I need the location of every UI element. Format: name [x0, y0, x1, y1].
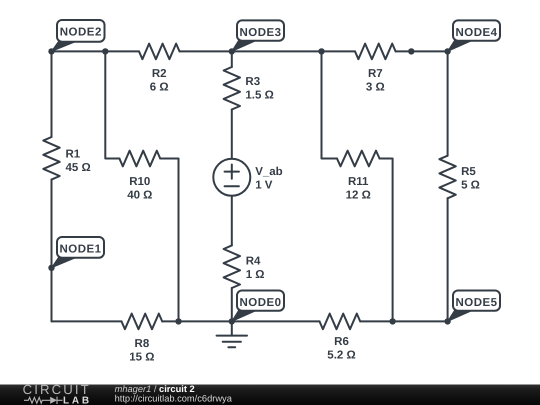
svg-text:R2: R2: [152, 68, 167, 80]
label R5 value 5 Ω: [461, 166, 480, 192]
wire from R10 right lead down to bottom bus: [160, 159, 178, 322]
wire: R4 down to NODE0 on bottom bus: [231, 288, 233, 321]
wire from R11 right lead down to bottom bus: [380, 159, 393, 322]
svg-text:3 Ω: 3 Ω: [366, 82, 385, 94]
resistor R8: [122, 314, 163, 330]
wire middle column: NODE3 down to R3: [231, 51, 233, 67]
svg-text:R5: R5: [461, 166, 476, 178]
svg-text:6 Ω: 6 Ω: [150, 82, 169, 94]
svg-text:mhager1 / circuit 2: mhager1 / circuit 2: [115, 384, 195, 394]
svg-text:R6: R6: [334, 336, 349, 348]
label R11 value 12 Ω: [346, 176, 371, 202]
svg-text:NODE2: NODE2: [60, 27, 102, 39]
node NODE3 label: [232, 20, 284, 51]
resistor R7: [355, 44, 396, 60]
label R8 value 15 Ω: [129, 338, 154, 364]
wire branch from top bus down to R11: [322, 51, 338, 158]
junction dot on bottom bus at R10 branch: [175, 318, 181, 324]
svg-text:15 Ω: 15 Ω: [129, 351, 154, 363]
wire right branch: R5 down to NODE5: [447, 198, 449, 321]
wire left branch: NODE2 down to R1: [51, 51, 53, 137]
svg-text:NODE1: NODE1: [59, 244, 101, 256]
resistor R1: [43, 137, 59, 180]
voltage source V_ab 1 V: [213, 159, 250, 196]
svg-text:R3: R3: [245, 76, 260, 88]
node NODE0 label: [232, 291, 284, 322]
svg-text:R8: R8: [135, 338, 150, 350]
svg-text:R4: R4: [246, 256, 261, 268]
resistor R10: [119, 151, 160, 167]
node NODE2 label: [52, 20, 105, 51]
wire bottom bus: R6 to NODE5: [360, 320, 447, 322]
wire bottom bus: left end to R8: [52, 320, 122, 322]
svg-text:LAB: LAB: [63, 395, 92, 405]
svg-text:NODE0: NODE0: [239, 297, 281, 309]
node NODE1 label: [52, 237, 105, 268]
wire bottom bus: R8 to R6 (through NODE0): [162, 320, 319, 322]
junction dot at NODE4: [444, 48, 450, 54]
junction dot at NODE3: [229, 48, 235, 54]
label R1 value 45 Ω: [66, 148, 91, 174]
svg-text:V_ab: V_ab: [255, 166, 283, 178]
svg-text:NODE4: NODE4: [455, 27, 497, 39]
svg-text:40 Ω: 40 Ω: [127, 190, 152, 202]
resistor R11: [337, 151, 380, 167]
wire top bus: NODE2 to R2 left lead: [52, 50, 140, 52]
junction dot at NODE0 / ground: [229, 318, 235, 324]
svg-text:R11: R11: [348, 176, 369, 188]
svg-text:45 Ω: 45 Ω: [66, 162, 91, 174]
svg-text:5 Ω: 5 Ω: [461, 180, 480, 192]
label R4 value 1 Ω: [246, 256, 265, 282]
wire: V_ab minus terminal to R4: [231, 196, 233, 246]
svg-text:NODE5: NODE5: [455, 297, 497, 309]
wire top bus: R2 right lead to R7 left lead (through NODE3): [180, 50, 356, 52]
junction dot on top bus at R11 branch: [318, 48, 324, 54]
resistor R6: [320, 314, 361, 330]
label V_ab value 1 V: [255, 166, 283, 192]
node NODE5 label: [448, 291, 500, 322]
node NODE4 label: [448, 20, 500, 51]
label R3 value 1.5 Ω: [245, 76, 273, 102]
CircuitLab logo: resistor-diode glyph: [24, 397, 63, 404]
svg-text:5.2 Ω: 5.2 Ω: [327, 349, 355, 361]
wire branch from top bus down to R10: [105, 51, 119, 158]
svg-text:12 Ω: 12 Ω: [346, 190, 371, 202]
svg-text:1.5 Ω: 1.5 Ω: [245, 90, 273, 102]
wire top bus: R7 right lead to NODE4: [396, 50, 448, 52]
svg-text:NODE3: NODE3: [239, 27, 281, 39]
svg-text:R10: R10: [129, 176, 150, 188]
svg-text:R7: R7: [368, 68, 383, 80]
label R2 value 6 Ω: [150, 68, 169, 94]
wire: R3 to V_ab plus terminal: [231, 110, 233, 159]
svg-text:1 Ω: 1 Ω: [246, 269, 265, 281]
label R6 value 5.2 Ω: [327, 336, 355, 362]
junction dot on bottom bus at R11 branch: [389, 318, 395, 324]
resistor R4: [224, 245, 240, 288]
resistor R3: [224, 67, 240, 110]
junction dot at NODE2: [48, 48, 54, 54]
wire right branch: NODE4 down to R5: [447, 51, 449, 155]
svg-text:1 V: 1 V: [255, 180, 273, 192]
junction dot on top bus right of R7: [408, 48, 414, 54]
resistor R2: [139, 44, 180, 60]
wire left branch: R1 down through NODE1 to bottom bus: [51, 180, 53, 322]
label R10 value 40 Ω: [127, 176, 152, 202]
resistor R5: [439, 156, 455, 199]
junction dot on top bus at R10 branch: [102, 48, 108, 54]
svg-text:R1: R1: [66, 148, 81, 160]
svg-text:http://circuitlab.com/c6drwya: http://circuitlab.com/c6drwya: [115, 394, 233, 404]
junction dot at NODE1: [48, 265, 54, 271]
ground symbol at NODE0: [217, 321, 247, 347]
label R7 value 3 Ω: [366, 68, 385, 94]
junction dot at NODE5: [444, 318, 450, 324]
